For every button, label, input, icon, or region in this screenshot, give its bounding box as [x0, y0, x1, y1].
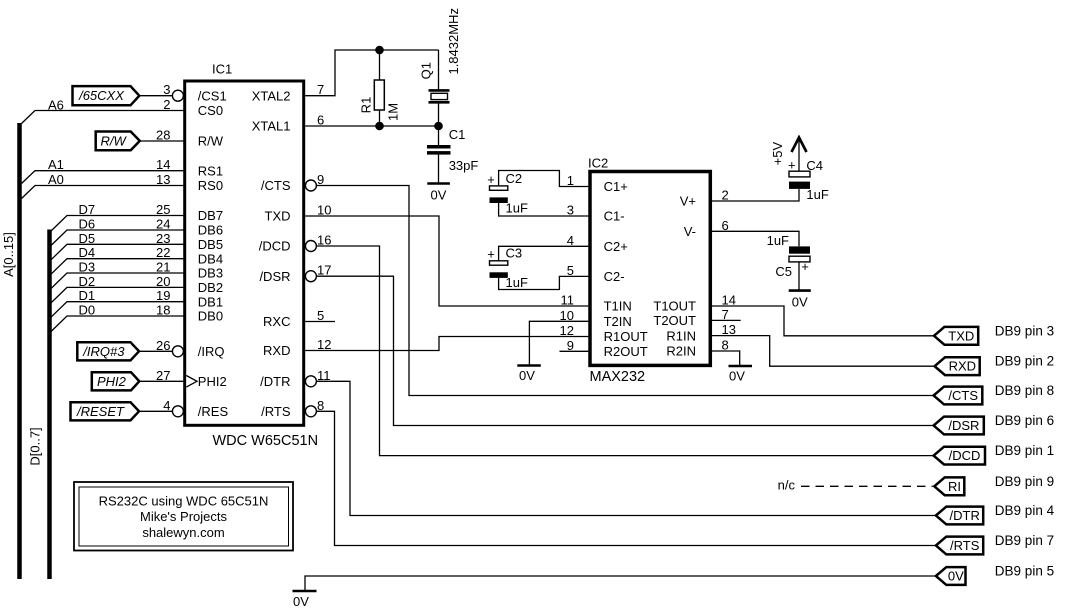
svg-text:13: 13	[156, 172, 170, 187]
svg-text:17: 17	[317, 263, 331, 278]
svg-text:/RES: /RES	[198, 404, 229, 419]
svg-text:Mike's Projects: Mike's Projects	[140, 509, 228, 524]
svg-text:DB9 pin 2: DB9 pin 2	[995, 354, 1054, 369]
svg-text:1uF: 1uF	[506, 201, 528, 216]
svg-text:D3: D3	[79, 260, 96, 275]
svg-text:19: 19	[156, 288, 170, 303]
svg-text:0V: 0V	[519, 368, 535, 383]
svg-text:+: +	[487, 172, 495, 187]
svg-text:23: 23	[156, 231, 170, 246]
svg-text:DB9 pin 8: DB9 pin 8	[995, 383, 1054, 398]
svg-text:R/W: R/W	[101, 133, 128, 148]
svg-text:22: 22	[156, 245, 170, 260]
svg-text:28: 28	[156, 128, 170, 143]
svg-text:MAX232: MAX232	[590, 369, 646, 385]
svg-text:12: 12	[317, 337, 331, 352]
svg-text:D6: D6	[79, 217, 96, 232]
svg-text:C2: C2	[506, 171, 523, 186]
svg-text:9: 9	[567, 338, 574, 353]
svg-text:CS0: CS0	[198, 103, 223, 118]
svg-text:DB9 pin 4: DB9 pin 4	[995, 503, 1055, 518]
svg-text:3: 3	[567, 203, 574, 218]
svg-text:0V: 0V	[729, 369, 745, 384]
svg-text:D5: D5	[79, 231, 96, 246]
svg-text:R/W: R/W	[198, 134, 224, 149]
svg-text:T1OUT: T1OUT	[653, 299, 696, 314]
svg-text:R1: R1	[358, 97, 373, 114]
svg-text:R1OUT: R1OUT	[604, 329, 648, 344]
svg-text:8: 8	[722, 338, 729, 353]
svg-text:D4: D4	[79, 245, 96, 260]
svg-text:IC2: IC2	[588, 156, 608, 171]
svg-text:7: 7	[317, 82, 324, 97]
svg-text:18: 18	[156, 303, 170, 318]
svg-text:1uF: 1uF	[767, 233, 789, 248]
svg-text:A1: A1	[48, 157, 64, 172]
svg-text:R2IN: R2IN	[666, 344, 696, 359]
svg-text:0V: 0V	[431, 188, 447, 203]
svg-text:/RESET: /RESET	[76, 404, 125, 419]
svg-text:14: 14	[722, 293, 736, 308]
svg-text:DB0: DB0	[198, 309, 223, 324]
svg-text:DB4: DB4	[198, 251, 223, 266]
svg-text:6: 6	[722, 218, 729, 233]
svg-text:DB9 pin 6: DB9 pin 6	[995, 413, 1054, 428]
svg-text:DB7: DB7	[198, 208, 223, 223]
svg-text:1uF: 1uF	[806, 187, 828, 202]
svg-text:2: 2	[163, 97, 170, 112]
svg-text:2: 2	[722, 188, 729, 203]
svg-text:shalewyn.com: shalewyn.com	[142, 525, 224, 540]
svg-text:R2OUT: R2OUT	[604, 344, 648, 359]
svg-text:/CTS: /CTS	[948, 388, 978, 403]
svg-text:/DSR: /DSR	[259, 269, 290, 284]
svg-text:27: 27	[156, 368, 170, 383]
svg-text:T1IN: T1IN	[604, 299, 632, 314]
svg-text:/65CXX: /65CXX	[78, 88, 125, 103]
svg-text:DB3: DB3	[198, 266, 223, 281]
svg-text:5: 5	[317, 308, 324, 323]
svg-text:TXD: TXD	[265, 209, 291, 224]
svg-text:DB9 pin 3: DB9 pin 3	[995, 323, 1054, 338]
svg-text:C1-: C1-	[604, 209, 625, 224]
svg-text:0V: 0V	[948, 569, 964, 584]
svg-text:DB9 pin 1: DB9 pin 1	[995, 443, 1054, 458]
svg-text:/IRQ: /IRQ	[198, 344, 225, 359]
svg-text:1.8432MHz: 1.8432MHz	[446, 8, 461, 74]
svg-text:DB1: DB1	[198, 294, 223, 309]
svg-text:0V: 0V	[293, 594, 309, 609]
svg-text:RI: RI	[948, 479, 961, 494]
svg-text:T2OUT: T2OUT	[653, 313, 696, 328]
svg-text:/RTS: /RTS	[950, 538, 980, 553]
svg-text:C1: C1	[449, 127, 466, 142]
svg-text:DB9 pin 9: DB9 pin 9	[995, 474, 1054, 489]
svg-text:T2IN: T2IN	[604, 314, 632, 329]
svg-text:C2-: C2-	[604, 269, 625, 284]
svg-text:Q1: Q1	[418, 62, 433, 79]
svg-text:+: +	[801, 259, 809, 274]
svg-text:16: 16	[317, 233, 331, 248]
svg-text:A0: A0	[48, 172, 64, 187]
svg-text:33pF: 33pF	[449, 158, 479, 173]
svg-text:V-: V-	[684, 224, 696, 239]
svg-text:IC1: IC1	[212, 62, 232, 77]
svg-text:RXD: RXD	[949, 359, 976, 374]
svg-text:A[0..15]: A[0..15]	[1, 232, 16, 277]
svg-text:8: 8	[317, 398, 324, 413]
svg-text:26: 26	[156, 338, 170, 353]
svg-text:RS0: RS0	[198, 178, 223, 193]
svg-text:C2+: C2+	[604, 239, 628, 254]
svg-text:9: 9	[317, 172, 324, 187]
svg-text:DB9 pin 5: DB9 pin 5	[995, 564, 1054, 579]
svg-text:RS232C using WDC 65C51N: RS232C using WDC 65C51N	[99, 493, 269, 508]
svg-text:RS1: RS1	[198, 163, 223, 178]
svg-text:10: 10	[560, 308, 574, 323]
svg-text:/DSR: /DSR	[948, 418, 979, 433]
svg-text:XTAL1: XTAL1	[252, 119, 291, 134]
svg-text:PHI2: PHI2	[198, 374, 227, 389]
svg-text:/IRQ#3: /IRQ#3	[82, 344, 125, 359]
svg-text:4: 4	[567, 233, 574, 248]
svg-text:14: 14	[156, 157, 170, 172]
svg-text:6: 6	[317, 113, 324, 128]
svg-text:1uF: 1uF	[506, 275, 528, 290]
svg-text:XTAL2: XTAL2	[252, 88, 291, 103]
svg-text:D[0..7]: D[0..7]	[27, 427, 42, 465]
svg-text:DB5: DB5	[198, 237, 223, 252]
svg-text:/DCD: /DCD	[949, 448, 981, 463]
svg-text:D0: D0	[79, 303, 96, 318]
svg-text:+: +	[487, 247, 495, 262]
svg-text:/DCD: /DCD	[259, 239, 291, 254]
svg-text:4: 4	[163, 398, 170, 413]
svg-text:/CTS: /CTS	[261, 178, 291, 193]
svg-text:/CS1: /CS1	[198, 88, 227, 103]
svg-text:0V: 0V	[792, 295, 808, 310]
svg-text:WDC W65C51N: WDC W65C51N	[213, 433, 319, 449]
svg-text:+: +	[788, 158, 796, 173]
svg-text:/RTS: /RTS	[261, 404, 291, 419]
svg-text:21: 21	[156, 260, 170, 275]
svg-text:+5V: +5V	[770, 142, 785, 166]
svg-text:R1IN: R1IN	[666, 328, 696, 343]
svg-text:24: 24	[156, 217, 170, 232]
svg-text:D7: D7	[79, 202, 96, 217]
svg-text:10: 10	[317, 203, 331, 218]
svg-text:TXD: TXD	[948, 328, 974, 343]
svg-text:DB2: DB2	[198, 280, 223, 295]
svg-text:/DTR: /DTR	[260, 374, 290, 389]
svg-text:1M: 1M	[385, 103, 400, 121]
svg-text:C1+: C1+	[604, 179, 628, 194]
svg-text:D1: D1	[79, 288, 96, 303]
svg-text:A6: A6	[48, 98, 64, 113]
svg-text:C3: C3	[506, 245, 523, 260]
svg-text:11: 11	[561, 293, 575, 308]
svg-text:/DTR: /DTR	[950, 508, 980, 523]
svg-text:12: 12	[560, 323, 574, 338]
svg-text:D2: D2	[79, 274, 96, 289]
svg-text:PHI2: PHI2	[97, 374, 127, 389]
svg-text:C4: C4	[806, 158, 823, 173]
svg-text:C5: C5	[775, 264, 792, 279]
svg-text:1: 1	[567, 173, 574, 188]
svg-text:20: 20	[156, 274, 170, 289]
svg-text:RXD: RXD	[263, 343, 290, 358]
svg-text:13: 13	[722, 322, 736, 337]
svg-text:DB6: DB6	[198, 223, 223, 238]
svg-text:V+: V+	[680, 194, 696, 209]
svg-text:DB9 pin 7: DB9 pin 7	[995, 533, 1054, 548]
svg-text:11: 11	[317, 368, 331, 383]
svg-text:5: 5	[567, 263, 574, 278]
svg-text:n/c: n/c	[778, 478, 796, 493]
svg-text:3: 3	[163, 82, 170, 97]
svg-text:25: 25	[156, 202, 170, 217]
svg-text:RXC: RXC	[263, 314, 290, 329]
svg-text:7: 7	[722, 307, 729, 322]
